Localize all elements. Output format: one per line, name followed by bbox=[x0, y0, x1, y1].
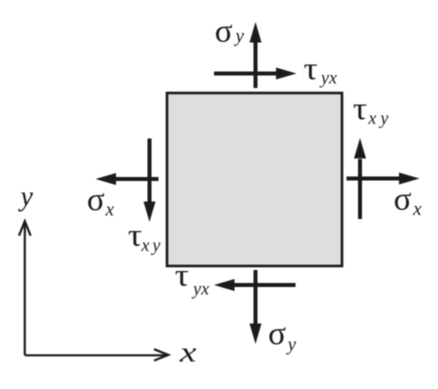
arrow tau_xy left side (downward) bbox=[144, 139, 156, 223]
arrow sigma_y bottom (downward) bbox=[250, 270, 262, 344]
label x axis bbox=[179, 337, 197, 368]
svg-text:y: y bbox=[18, 182, 34, 213]
svg-text:x: x bbox=[179, 337, 197, 368]
svg-text:σ: σ bbox=[394, 182, 412, 218]
label tau_xy right bbox=[353, 90, 392, 128]
svg-text:τ: τ bbox=[304, 50, 318, 86]
label sigma_x right bbox=[394, 182, 423, 220]
svg-text:τ: τ bbox=[128, 216, 142, 252]
arrow sigma_y top (upward) bbox=[250, 22, 262, 88]
y coordinate axis (upward) bbox=[19, 221, 31, 355]
arrow sigma_x left (leftward) bbox=[96, 173, 159, 185]
x coordinate axis (rightward) bbox=[25, 349, 169, 360]
svg-text:x: x bbox=[412, 199, 422, 220]
svg-text:τ: τ bbox=[175, 257, 189, 293]
label tau_yx top bbox=[304, 50, 337, 87]
svg-text:xy: xy bbox=[367, 108, 392, 128]
arrow sigma_x right (rightward) bbox=[347, 173, 420, 185]
svg-text:y: y bbox=[286, 334, 297, 355]
svg-text:yx: yx bbox=[319, 67, 337, 87]
arrow tau_yx top (rightward) bbox=[214, 68, 297, 80]
svg-text:τ: τ bbox=[353, 90, 367, 126]
svg-text:x: x bbox=[105, 200, 115, 221]
label tau_xy bottom-left bbox=[128, 216, 163, 255]
label sigma_y bottom bbox=[268, 316, 297, 355]
stress element square bbox=[167, 93, 342, 266]
svg-text:σ: σ bbox=[268, 316, 286, 352]
label sigma_x left bbox=[87, 182, 115, 221]
arrow tau_xy right side (upward) bbox=[354, 138, 366, 219]
label sigma_y top bbox=[215, 13, 245, 49]
svg-text:yx: yx bbox=[191, 279, 209, 299]
svg-text:y: y bbox=[234, 26, 245, 47]
svg-text:σ: σ bbox=[87, 182, 105, 218]
arrow tau_yx bottom (leftward) bbox=[214, 279, 296, 291]
label tau_yx bottom bbox=[175, 257, 209, 299]
svg-text:xy: xy bbox=[140, 235, 163, 255]
svg-text:σ: σ bbox=[215, 13, 233, 49]
